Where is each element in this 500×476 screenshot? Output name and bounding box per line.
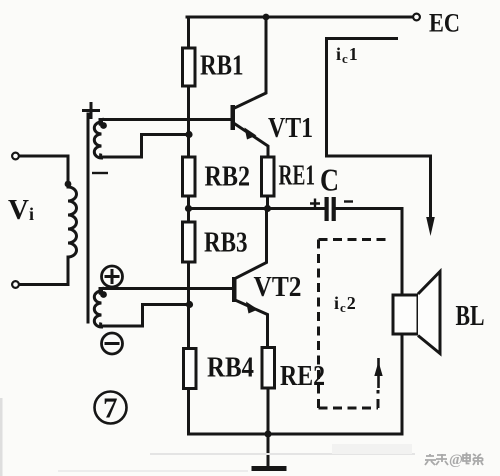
svg-text:VT2: VT2	[254, 271, 302, 303]
svg-text:EC: EC	[429, 9, 460, 38]
svg-text:RE2: RE2	[280, 360, 325, 392]
svg-text:BL: BL	[456, 300, 485, 332]
svg-text:RB3: RB3	[204, 227, 248, 259]
svg-text:C: C	[320, 162, 339, 198]
svg-text:7: 7	[103, 393, 118, 425]
svg-text:@: @	[449, 452, 463, 468]
svg-text:RB1: RB1	[200, 50, 244, 82]
svg-text:ic1: ic1	[336, 44, 359, 66]
svg-text:RB4: RB4	[207, 352, 254, 384]
svg-text:Vi: Vi	[8, 194, 34, 226]
svg-text:RB2: RB2	[205, 161, 251, 193]
svg-text:RE1: RE1	[279, 160, 316, 192]
svg-text:VT1: VT1	[268, 112, 313, 144]
svg-text:ic2: ic2	[334, 293, 357, 315]
